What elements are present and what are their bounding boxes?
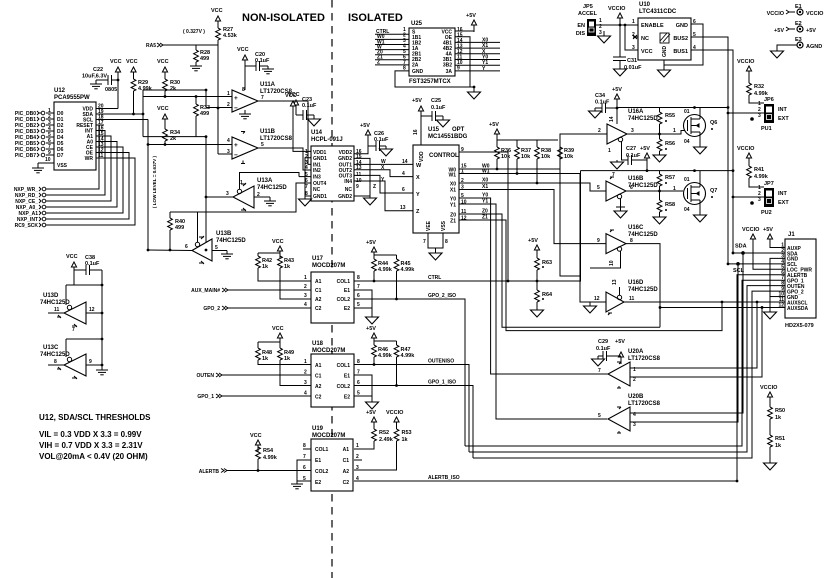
- svg-text:5: 5: [261, 142, 264, 148]
- svg-text:1: 1: [227, 91, 230, 97]
- wire ENABLE/VCC from VCCIO: [620, 24, 638, 26]
- svg-text:C27: C27: [626, 146, 636, 152]
- svg-text:AUX_MAIN#: AUX_MAIN#: [191, 288, 220, 294]
- svg-text:R54: R54: [263, 448, 274, 454]
- resistor R54 4.99k: [256, 447, 278, 472]
- svg-text:3: 3: [226, 191, 229, 197]
- svg-text:0.1uF: 0.1uF: [85, 261, 100, 267]
- svg-text:LT1720CS8: LT1720CS8: [628, 401, 661, 407]
- svg-text:7: 7: [303, 454, 306, 460]
- PIC_DB input connectors: [15, 111, 36, 159]
- svg-text:VCC: VCC: [285, 93, 297, 99]
- buffer U13B 74HC125D: [185, 231, 246, 264]
- VCCIO + R50 R51 divider: [760, 385, 778, 407]
- svg-text:VCCIO: VCCIO: [742, 227, 760, 233]
- svg-text:GPO_1_ISO: GPO_1_ISO: [428, 380, 456, 386]
- wire channel labels: [482, 164, 490, 221]
- svg-text:VCC: VCC: [272, 239, 284, 245]
- U16A input wire: [560, 133, 607, 135]
- svg-text:U20A: U20A: [628, 349, 644, 355]
- svg-text:VDD: VDD: [419, 151, 425, 162]
- svg-text:EN: EN: [577, 23, 585, 29]
- svg-text:8: 8: [54, 359, 57, 365]
- svg-text:Y1: Y1: [482, 199, 488, 205]
- svg-text:7: 7: [261, 95, 264, 101]
- U25 left signal wires: [375, 34, 409, 65]
- wire hysteresis bottom: [143, 135, 207, 250]
- VCC + R42 R43 for U17: [258, 239, 284, 258]
- resistor R37 10k: [515, 140, 532, 175]
- svg-text:10: 10: [609, 260, 615, 266]
- svg-text:VCCIO: VCCIO: [737, 146, 755, 152]
- svg-text:74HC125D: 74HC125D: [628, 287, 658, 293]
- svg-text:1k: 1k: [262, 264, 269, 270]
- resistor R47 4.99k: [394, 341, 415, 387]
- svg-text:OPT: OPT: [452, 127, 465, 133]
- IC U12 PCA9555PW: [54, 88, 96, 170]
- svg-text:VCC: VCC: [250, 433, 262, 439]
- svg-text:A2: A2: [343, 469, 350, 475]
- svg-text:4: 4: [227, 138, 230, 144]
- node RA5 entry: [146, 43, 218, 49]
- svg-text:1: 1: [240, 180, 243, 186]
- svg-text:7: 7: [72, 327, 75, 333]
- svg-text:JP6: JP6: [764, 97, 774, 103]
- svg-text:VCC: VCC: [272, 326, 284, 332]
- resistor R64: [531, 290, 554, 317]
- svg-text:2k: 2k: [170, 86, 177, 92]
- +5V rail for pullup bank: [489, 122, 558, 141]
- svg-text:PCA9555PW: PCA9555PW: [54, 95, 90, 101]
- svg-text:EXT: EXT: [778, 116, 789, 122]
- svg-text:IN4: IN4: [344, 179, 352, 185]
- svg-text:4.99k: 4.99k: [138, 86, 153, 92]
- svg-text:0.01uF: 0.01uF: [624, 65, 642, 71]
- svg-text:GND2: GND2: [338, 156, 352, 162]
- svg-text:COL1: COL1: [315, 447, 329, 453]
- svg-text:PU1: PU1: [761, 126, 772, 132]
- +5V for R44 R45: [366, 240, 397, 259]
- ground for U25: [468, 87, 481, 99]
- svg-text:U12, SDA/SCL THRESHOLDS: U12, SDA/SCL THRESHOLDS: [39, 413, 151, 422]
- wire R27 to node: [217, 40, 219, 45]
- svg-text:E2: E2: [344, 395, 350, 401]
- svg-text:FST3257MTCX: FST3257MTCX: [409, 79, 451, 85]
- +5V and C25 for U15: [412, 98, 450, 145]
- SDA tap: [735, 244, 747, 255]
- svg-text:U18: U18: [312, 341, 324, 347]
- svg-text:8: 8: [445, 239, 448, 245]
- svg-text:BUS2: BUS2: [673, 36, 688, 42]
- svg-text:R63: R63: [542, 260, 552, 266]
- NXP bus nested wires to U12: [46, 125, 135, 225]
- resistor R63: [535, 258, 552, 290]
- wire X OUT2 to U15: [354, 165, 413, 177]
- VCC + C38 for U13C/U13D: [66, 254, 103, 368]
- svg-text:SDA: SDA: [735, 244, 747, 250]
- comparator U11A LT1720CS8: [227, 82, 293, 119]
- svg-text:7: 7: [423, 239, 426, 245]
- wire U14 IN3 from U13A enable rail: [299, 176, 311, 178]
- svg-text:X: X: [416, 175, 420, 181]
- svg-text:VIH = 0.7 VDD X 3.3 = 2.31V: VIH = 0.7 VDD X 3.3 = 2.31V: [39, 441, 143, 450]
- svg-text:C2: C2: [315, 395, 322, 401]
- test point E3 AGND: [771, 37, 823, 58]
- wire U17 COL1 (CTRL): [354, 280, 374, 282]
- svg-text:Z: Z: [377, 60, 380, 66]
- svg-text:1k: 1k: [284, 356, 291, 362]
- U19 C1 stub: [354, 459, 362, 461]
- svg-text:VCCIO: VCCIO: [386, 410, 404, 416]
- resistor R44 4.99k: [372, 255, 393, 282]
- U12 right pin stubs: [96, 109, 104, 159]
- U14 GND1 pin2: [305, 158, 311, 196]
- ground U14 left: [299, 196, 312, 206]
- svg-text:W1: W1: [449, 173, 457, 179]
- svg-text:VCCIO: VCCIO: [737, 59, 755, 65]
- svg-text:U16C: U16C: [628, 225, 644, 231]
- svg-text:PIC_DB7: PIC_DB7: [15, 153, 36, 159]
- svg-text:10: 10: [461, 200, 467, 206]
- svg-text:12: 12: [461, 216, 467, 222]
- ground on U16D input: [584, 302, 597, 313]
- svg-text:U11B: U11B: [260, 129, 276, 135]
- svg-text:U13A: U13A: [257, 178, 273, 184]
- wire U13C input to ground rail: [86, 364, 102, 366]
- svg-text:R56: R56: [665, 141, 675, 147]
- svg-text:499: 499: [200, 111, 209, 117]
- wire GPO_1_ISO: [354, 380, 473, 459]
- svg-text:12: 12: [89, 307, 95, 313]
- svg-text:ACCEL: ACCEL: [578, 11, 598, 17]
- svg-text:A2: A2: [315, 297, 322, 303]
- svg-text:6: 6: [630, 185, 633, 191]
- SCL tap: [733, 262, 745, 274]
- svg-text:0805: 0805: [105, 87, 117, 93]
- IC U10 LTC4311CDC: [632, 2, 696, 60]
- wire SDA to comparator: [104, 113, 143, 115]
- svg-text:C34: C34: [595, 93, 606, 99]
- wire Z IN4 to U15: [354, 181, 413, 211]
- resistor R46 4.99k: [372, 341, 393, 366]
- svg-text:C25: C25: [431, 98, 441, 104]
- resistor R51 1k: [764, 435, 786, 470]
- svg-text:ALERTB_ISO: ALERTB_ISO: [428, 475, 460, 481]
- input OUTEN: [197, 373, 312, 379]
- resistor R34 2k: [163, 129, 181, 146]
- svg-text:Z1: Z1: [450, 219, 456, 225]
- C34 bypass for U16: [589, 93, 618, 118]
- svg-text:1: 1: [673, 186, 676, 192]
- svg-text:+5V: +5V: [489, 122, 499, 128]
- svg-text:VCC: VCC: [157, 59, 169, 65]
- svg-text:9: 9: [597, 238, 600, 244]
- svg-text:1: 1: [632, 19, 635, 25]
- svg-text:3: 3: [631, 128, 634, 134]
- svg-text:E2: E2: [315, 480, 321, 486]
- U14 pin numbers: [305, 149, 308, 197]
- wire U14 OUT4 to U13B enable: [198, 183, 312, 212]
- wire U12 VDD to VCC: [104, 108, 118, 110]
- svg-text:U17: U17: [312, 256, 324, 262]
- svg-text:D7: D7: [57, 153, 64, 159]
- svg-text:6: 6: [185, 244, 188, 250]
- svg-text:1: 1: [356, 443, 359, 449]
- svg-text:E1: E1: [344, 288, 350, 294]
- svg-text:1k: 1k: [262, 356, 269, 362]
- svg-text:RC9_SCK: RC9_SCK: [15, 223, 39, 229]
- wire U13D output stub: [48, 312, 64, 314]
- svg-text:VIL = 0.3 VDD X 3.3 = 0.99V: VIL = 0.3 VDD X 3.3 = 0.99V: [39, 430, 142, 439]
- svg-text:A1: A1: [315, 279, 322, 285]
- wire ALERTB_ISO: [354, 475, 737, 481]
- svg-text:A1: A1: [315, 363, 322, 369]
- svg-text:CONTROL: CONTROL: [429, 153, 459, 159]
- svg-text:4.99k: 4.99k: [754, 174, 769, 180]
- svg-text:AUXSDA: AUXSDA: [787, 306, 809, 312]
- wire corner R39 drop: [560, 163, 581, 276]
- IC U15 MC14551BDG mux: [413, 127, 468, 233]
- svg-text:R52: R52: [379, 430, 389, 436]
- svg-text:1: 1: [304, 359, 307, 365]
- wire Y1 to U20B: [459, 204, 607, 419]
- J1 GPO_1 wire: [465, 280, 785, 446]
- wire GPO_2_ISO: [354, 293, 465, 446]
- svg-text:7: 7: [598, 368, 601, 374]
- svg-text:13: 13: [400, 205, 406, 211]
- svg-text:14: 14: [402, 159, 408, 165]
- VCCIO +5V for J1: [742, 227, 785, 269]
- U16B output wire: [626, 190, 683, 192]
- MOSFET Q6: [673, 106, 717, 154]
- wire U13A output left: [206, 196, 233, 198]
- svg-text:U16D: U16D: [628, 280, 644, 286]
- U16D output wire to J1: [624, 301, 785, 303]
- svg-text:3: 3: [633, 422, 636, 428]
- U18 E1 E2 to ground: [354, 375, 372, 396]
- resistor R27: [216, 21, 238, 40]
- isolation dashed boundary: [331, 0, 333, 578]
- svg-text:6: 6: [402, 187, 405, 193]
- U25 OE wire to ground: [455, 37, 470, 87]
- resistor R32 4.99k: [747, 83, 769, 103]
- test point E1: [767, 4, 825, 17]
- svg-text:U25: U25: [411, 21, 423, 27]
- svg-text:5: 5: [597, 185, 600, 191]
- capacitor C22: [82, 67, 119, 93]
- svg-text:C2: C2: [315, 306, 322, 312]
- resistor R39 10k: [558, 140, 575, 163]
- svg-text:+5V: +5V: [763, 227, 773, 233]
- VCC for U12 VDD: [110, 59, 122, 109]
- svg-text:0.1uF: 0.1uF: [431, 105, 446, 111]
- svg-text:+5V: +5V: [774, 28, 784, 34]
- svg-text:PU2: PU2: [761, 210, 772, 216]
- svg-text:+5V: +5V: [640, 146, 650, 152]
- svg-text:4.99k: 4.99k: [378, 353, 393, 359]
- svg-text:74HC125D: 74HC125D: [257, 185, 287, 191]
- svg-text:GND: GND: [662, 46, 668, 58]
- svg-text:Z: Z: [373, 184, 376, 190]
- input GPO_1: [197, 394, 311, 400]
- svg-text:3: 3: [304, 380, 307, 386]
- buffer U16A 74HC125D: [598, 109, 658, 144]
- svg-text:+5V: +5V: [612, 87, 622, 93]
- svg-text:GND1: GND1: [313, 194, 327, 200]
- ground under C38 rail: [96, 365, 108, 375]
- U15 control pin 9 wire down to CTRL: [459, 152, 508, 281]
- svg-text:10: 10: [45, 157, 51, 163]
- svg-text:14: 14: [609, 116, 615, 122]
- wire U13B input to ground: [212, 251, 233, 259]
- svg-text:5: 5: [357, 302, 360, 308]
- svg-text:10k: 10k: [541, 154, 551, 160]
- svg-text:C2: C2: [343, 480, 350, 486]
- svg-text:Q7: Q7: [710, 188, 717, 194]
- svg-text:+5V: +5V: [366, 410, 376, 416]
- U15 left pin names/numbers: [416, 163, 422, 215]
- svg-text:EXT: EXT: [778, 200, 789, 206]
- test point E2: [774, 21, 816, 34]
- SDA feedback vertical: [142, 90, 144, 137]
- svg-text:GPO_2_ISO: GPO_2_ISO: [428, 293, 456, 299]
- jumper JP6: [727, 97, 790, 132]
- svg-text:U13D: U13D: [43, 293, 59, 299]
- wire Z1 down: [459, 220, 722, 331]
- svg-text:( LOW LEVEL = 0.637V ): ( LOW LEVEL = 0.637V ): [152, 155, 157, 208]
- svg-text:BUS1: BUS1: [673, 49, 688, 55]
- resistor R28 499: [190, 45, 210, 71]
- VCC + C23 bypass near U11B output: [288, 92, 321, 126]
- jumper JP5 ACCEL: [576, 4, 620, 43]
- svg-text:U14: U14: [311, 130, 323, 136]
- wire U11A out to U14 IN1: [258, 101, 311, 164]
- svg-text:499: 499: [200, 56, 209, 62]
- svg-text:R53: R53: [402, 430, 412, 436]
- svg-text:U19: U19: [312, 426, 324, 432]
- resistor R36 10k: [495, 140, 512, 170]
- wire U13B output left: [148, 249, 192, 252]
- J1 SDA pin wire: [733, 252, 785, 254]
- svg-text:VCCIO: VCCIO: [767, 11, 785, 17]
- svg-text:VSS: VSS: [441, 220, 447, 231]
- svg-text:2: 2: [227, 102, 230, 108]
- svg-text:2: 2: [304, 284, 307, 290]
- opto U19 MOCD207M: [303, 426, 359, 491]
- svg-text:COL2: COL2: [315, 469, 329, 475]
- svg-text:+5V: +5V: [366, 240, 376, 246]
- MOSFET Q7: [673, 169, 717, 222]
- svg-text:04: 04: [684, 207, 690, 213]
- IC U14 HCPL-091J: [311, 130, 354, 201]
- VCC + C20 bypass for U11A: [237, 47, 274, 90]
- svg-text:C31: C31: [627, 58, 637, 64]
- svg-text:IN2: IN2: [313, 168, 321, 174]
- svg-text:X0: X0: [482, 178, 488, 184]
- svg-text:4: 4: [304, 302, 307, 308]
- svg-text:COL2: COL2: [337, 297, 351, 303]
- svg-text:10uF,6.3V: 10uF,6.3V: [82, 74, 107, 80]
- svg-text:X1: X1: [450, 188, 456, 194]
- svg-text:10k: 10k: [521, 154, 531, 160]
- U25 pin numbers: [403, 27, 406, 72]
- svg-text:VCC: VCC: [126, 59, 138, 65]
- svg-text:R55: R55: [665, 113, 675, 119]
- J1 AUXSDA wire from U16C: [660, 306, 785, 308]
- +5V for U16A: [609, 87, 622, 124]
- VCC for R30: [157, 59, 169, 79]
- svg-text:VCC: VCC: [66, 254, 78, 260]
- svg-text:3: 3: [632, 45, 635, 51]
- U19 COL1 stub: [303, 448, 311, 450]
- J1 SCL pin wire: [728, 263, 785, 265]
- wire SCL to comparator: [104, 119, 148, 121]
- svg-text:10k: 10k: [501, 154, 511, 160]
- svg-text:VCCIO: VCCIO: [806, 11, 824, 17]
- comparator U20B LT1720CS8: [598, 394, 661, 433]
- svg-text:10k: 10k: [564, 154, 574, 160]
- svg-text:2: 2: [356, 454, 359, 460]
- svg-text:1k: 1k: [775, 443, 782, 449]
- svg-text:3: 3: [758, 113, 761, 119]
- buffer U16B 74HC125D: [597, 172, 658, 218]
- U25 VCC +5V: [455, 13, 477, 32]
- VCCIO source for U10: [608, 6, 626, 57]
- svg-text:A2: A2: [315, 384, 322, 390]
- svg-text:1k: 1k: [284, 264, 291, 270]
- svg-text:R64: R64: [542, 292, 553, 298]
- svg-text:1: 1: [608, 148, 611, 154]
- svg-text:E1: E1: [344, 374, 350, 380]
- svg-text:VCCIO: VCCIO: [760, 385, 778, 391]
- svg-text:U11A: U11A: [260, 82, 276, 88]
- U13B enable wire: [170, 212, 198, 242]
- U16A output wire: [627, 131, 688, 135]
- svg-text:Y1: Y1: [450, 203, 456, 209]
- J1 GPO_2 wire: [473, 291, 785, 458]
- svg-text:VCC: VCC: [110, 59, 122, 65]
- resistor R49 1k: [278, 342, 311, 386]
- svg-text:COL1: COL1: [337, 279, 351, 285]
- svg-text:+5V: +5V: [806, 28, 816, 34]
- svg-text:INT: INT: [778, 107, 788, 113]
- svg-text:499: 499: [175, 225, 184, 231]
- svg-text:JP7: JP7: [764, 181, 774, 187]
- svg-text:VCC: VCC: [157, 106, 169, 112]
- resistor R38 10k: [535, 140, 552, 184]
- svg-text:U13B: U13B: [216, 231, 232, 237]
- U10 bottom ground: [658, 60, 671, 77]
- svg-text:4.99k: 4.99k: [263, 455, 278, 461]
- svg-text:( 0.327V ): ( 0.327V ): [183, 29, 205, 35]
- wire Y0 to U20A: [459, 198, 608, 374]
- input AUX_MAIN#: [191, 288, 311, 294]
- svg-text:C29: C29: [598, 339, 608, 345]
- svg-text:16: 16: [413, 129, 419, 135]
- U12 left pin stubs + numbers: [46, 113, 54, 155]
- U25 GND pin routing: [395, 71, 474, 87]
- wire Z0 down: [459, 214, 660, 327]
- U16C output wire to down link: [626, 244, 660, 328]
- VCCIO + R32 for JP6: [737, 59, 755, 83]
- resistor R30 2k: [163, 79, 180, 98]
- svg-text:2A: 2A: [412, 63, 419, 69]
- +5V and R52: [366, 410, 377, 429]
- svg-text:NON-ISOLATED: NON-ISOLATED: [242, 12, 325, 24]
- U25 right signal wires: [455, 42, 500, 71]
- wire U13D input: [86, 312, 102, 314]
- svg-text:4: 4: [402, 171, 405, 177]
